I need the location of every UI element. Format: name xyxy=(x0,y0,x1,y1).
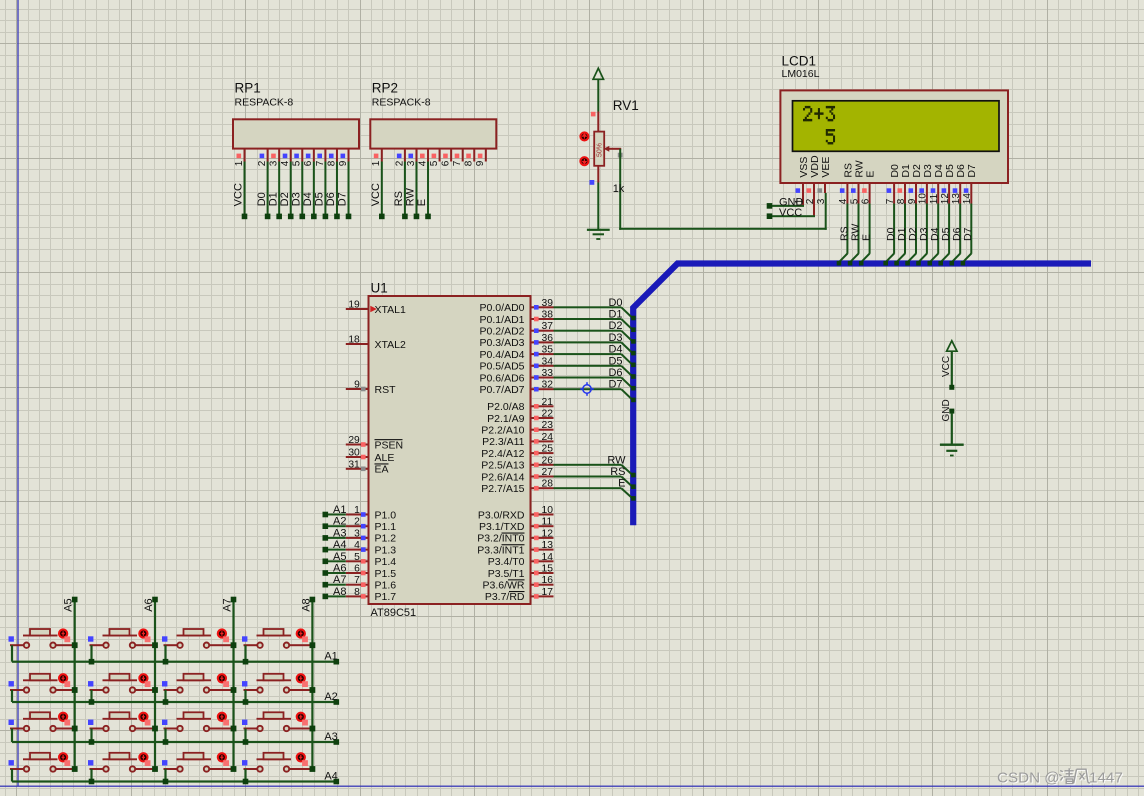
svg-text:RS: RS xyxy=(610,466,625,478)
svg-text:P3.4/T0: P3.4/T0 xyxy=(488,556,525,568)
svg-text:P3.1/TXD: P3.1/TXD xyxy=(479,521,525,533)
svg-text:1k: 1k xyxy=(613,183,625,195)
svg-text:35: 35 xyxy=(542,345,554,356)
svg-text:13: 13 xyxy=(542,540,554,551)
svg-text:RESPACK-8: RESPACK-8 xyxy=(372,96,431,108)
svg-text:P1.4: P1.4 xyxy=(375,556,397,568)
svg-text:7: 7 xyxy=(452,160,463,166)
svg-text:8: 8 xyxy=(326,160,337,166)
svg-text:D7: D7 xyxy=(962,227,974,241)
svg-text:33: 33 xyxy=(542,368,554,379)
svg-text:P3.3/INT1: P3.3/INT1 xyxy=(477,544,524,556)
svg-text:8: 8 xyxy=(464,160,475,166)
svg-text:17: 17 xyxy=(542,587,554,598)
svg-text:37: 37 xyxy=(542,321,554,332)
svg-text:D3: D3 xyxy=(918,227,930,241)
svg-text:23: 23 xyxy=(542,420,554,431)
svg-text:P2.4/A12: P2.4/A12 xyxy=(481,448,524,460)
svg-text:30: 30 xyxy=(348,448,360,459)
svg-text:A6: A6 xyxy=(143,598,155,611)
svg-text:1: 1 xyxy=(371,160,382,166)
svg-text:P2.2/A10: P2.2/A10 xyxy=(481,425,524,437)
svg-text:D7: D7 xyxy=(966,164,978,178)
svg-text:E: E xyxy=(861,234,873,241)
svg-text:P3.6/WR: P3.6/WR xyxy=(482,580,524,592)
svg-text:2: 2 xyxy=(354,517,360,528)
svg-text:28: 28 xyxy=(542,479,554,490)
svg-text:22: 22 xyxy=(542,409,554,420)
svg-text:E: E xyxy=(618,478,625,490)
svg-text:2: 2 xyxy=(394,160,405,166)
svg-text:VCC: VCC xyxy=(370,183,382,206)
svg-text:9: 9 xyxy=(338,160,349,166)
svg-text:9: 9 xyxy=(354,380,360,391)
svg-text:P2.7/A15: P2.7/A15 xyxy=(481,483,524,495)
svg-text:A7: A7 xyxy=(333,574,346,586)
svg-text:P3.5/T1: P3.5/T1 xyxy=(488,568,525,580)
svg-text:A4: A4 xyxy=(324,771,337,783)
svg-text:P0.7/AD7: P0.7/AD7 xyxy=(480,384,525,396)
svg-text:D0: D0 xyxy=(256,192,268,206)
svg-text:D3: D3 xyxy=(608,332,622,344)
svg-text:A2: A2 xyxy=(324,691,337,703)
svg-text:P2.6/A14: P2.6/A14 xyxy=(481,471,524,483)
svg-text:P0.0/AD0: P0.0/AD0 xyxy=(480,302,525,314)
svg-text:P1.3: P1.3 xyxy=(375,544,397,556)
svg-text:RS: RS xyxy=(393,191,405,206)
svg-text:1: 1 xyxy=(234,160,245,166)
svg-text:5: 5 xyxy=(354,552,360,563)
svg-text:A5: A5 xyxy=(63,598,75,611)
svg-text:P1.0: P1.0 xyxy=(375,509,397,521)
svg-text:P2.0/A8: P2.0/A8 xyxy=(487,401,525,413)
svg-text:6: 6 xyxy=(303,160,314,166)
svg-text:A2: A2 xyxy=(333,516,346,528)
svg-text:D7: D7 xyxy=(337,192,349,206)
svg-text:A3: A3 xyxy=(324,731,337,743)
svg-text:38: 38 xyxy=(542,310,554,321)
svg-text:LCD1: LCD1 xyxy=(782,54,817,69)
svg-text:5: 5 xyxy=(292,160,303,166)
svg-text:P2.5/A13: P2.5/A13 xyxy=(481,460,524,472)
svg-text:A6: A6 xyxy=(333,563,346,575)
svg-text:P1.2: P1.2 xyxy=(375,533,397,545)
svg-text:39: 39 xyxy=(542,298,554,309)
svg-text:1447: 1447 xyxy=(1089,770,1123,787)
svg-text:P1.1: P1.1 xyxy=(375,521,397,533)
svg-text:3: 3 xyxy=(354,528,360,539)
svg-text:P2.3/A11: P2.3/A11 xyxy=(482,436,525,448)
svg-text:26: 26 xyxy=(542,455,554,466)
svg-text:LM016L: LM016L xyxy=(782,68,820,80)
svg-text:A8: A8 xyxy=(333,586,346,598)
svg-text:3: 3 xyxy=(269,160,280,166)
svg-text:A5: A5 xyxy=(333,551,346,563)
svg-text:D4: D4 xyxy=(608,344,622,356)
svg-text:RW: RW xyxy=(405,188,417,207)
svg-text:VEE: VEE xyxy=(820,157,832,178)
svg-text:P0.6/AD6: P0.6/AD6 xyxy=(480,372,525,384)
svg-text:4: 4 xyxy=(280,160,291,166)
svg-text:P1.5: P1.5 xyxy=(375,568,397,580)
svg-text:P0.5/AD5: P0.5/AD5 xyxy=(480,361,525,373)
svg-text:2: 2 xyxy=(257,160,268,166)
svg-text:D5: D5 xyxy=(314,192,326,206)
svg-text:D3: D3 xyxy=(290,192,302,206)
svg-text:VCC: VCC xyxy=(941,356,952,377)
svg-text:D0: D0 xyxy=(608,297,622,309)
svg-text:32: 32 xyxy=(542,380,554,391)
svg-text:A7: A7 xyxy=(222,598,234,611)
svg-text:ALE: ALE xyxy=(375,452,395,464)
svg-text:D5: D5 xyxy=(608,355,622,367)
svg-text:6: 6 xyxy=(441,160,452,166)
svg-text:11: 11 xyxy=(542,517,553,528)
svg-text:AT89C51: AT89C51 xyxy=(371,607,417,619)
svg-text:P2.1/A9: P2.1/A9 xyxy=(487,413,525,425)
svg-text:PSEN: PSEN xyxy=(375,439,404,451)
svg-text:3: 3 xyxy=(406,160,417,166)
svg-text:U1: U1 xyxy=(371,281,388,296)
svg-text:D3: D3 xyxy=(922,164,934,178)
svg-text:50%: 50% xyxy=(597,143,604,157)
svg-text:7: 7 xyxy=(315,160,326,166)
svg-text:RV1: RV1 xyxy=(613,98,639,113)
svg-text:EA: EA xyxy=(375,464,389,476)
svg-text:P3.7/RD: P3.7/RD xyxy=(485,591,525,603)
svg-text:21: 21 xyxy=(542,397,554,408)
svg-text:4: 4 xyxy=(354,540,360,551)
svg-text:36: 36 xyxy=(542,333,554,344)
svg-text:9: 9 xyxy=(475,160,486,166)
svg-text:D2: D2 xyxy=(279,192,291,206)
svg-text:18: 18 xyxy=(348,335,360,346)
svg-text:1: 1 xyxy=(354,505,360,516)
svg-text:16: 16 xyxy=(542,575,554,586)
svg-text:D6: D6 xyxy=(608,367,622,379)
svg-text:P3.0/RXD: P3.0/RXD xyxy=(478,509,525,521)
svg-text:RESPACK-8: RESPACK-8 xyxy=(235,96,294,108)
svg-text:A3: A3 xyxy=(333,527,346,539)
svg-text:A1: A1 xyxy=(333,504,346,516)
svg-text:12: 12 xyxy=(542,528,554,539)
svg-text:27: 27 xyxy=(542,467,554,478)
svg-text:10: 10 xyxy=(542,505,554,516)
svg-text:RP2: RP2 xyxy=(372,81,398,96)
svg-text:E: E xyxy=(416,199,428,206)
svg-text:7: 7 xyxy=(354,575,360,586)
svg-text:A4: A4 xyxy=(333,539,346,551)
svg-text:29: 29 xyxy=(348,435,360,446)
svg-text:XTAL1: XTAL1 xyxy=(375,304,406,316)
svg-text:D1: D1 xyxy=(267,192,279,206)
svg-text:P0.1/AD1: P0.1/AD1 xyxy=(480,314,525,326)
svg-text:D2: D2 xyxy=(608,320,622,332)
svg-text:D1: D1 xyxy=(608,309,622,321)
svg-text:5: 5 xyxy=(429,160,440,166)
svg-text:8: 8 xyxy=(354,587,360,598)
svg-text:24: 24 xyxy=(542,432,554,443)
svg-text:3: 3 xyxy=(816,198,827,204)
svg-text:19: 19 xyxy=(348,300,360,311)
svg-text:31: 31 xyxy=(348,459,360,470)
svg-text:14: 14 xyxy=(542,552,554,563)
svg-text:P1.6: P1.6 xyxy=(375,580,397,592)
svg-text:RP1: RP1 xyxy=(235,81,261,96)
svg-text:E: E xyxy=(865,171,877,178)
svg-text:A1: A1 xyxy=(324,651,337,663)
svg-text:D7: D7 xyxy=(608,379,622,391)
svg-text:15: 15 xyxy=(542,564,554,575)
svg-text:GND: GND xyxy=(941,399,952,421)
svg-text:34: 34 xyxy=(542,356,554,367)
svg-text:P0.3/AD3: P0.3/AD3 xyxy=(480,337,525,349)
svg-text:XTAL2: XTAL2 xyxy=(375,339,406,351)
svg-text:RW: RW xyxy=(607,454,626,466)
svg-text:RST: RST xyxy=(375,384,397,396)
svg-text:CSDN @: CSDN @ xyxy=(997,770,1060,787)
svg-text:VCC: VCC xyxy=(233,183,245,206)
svg-text:P0.2/AD2: P0.2/AD2 xyxy=(480,326,525,338)
svg-text:P0.4/AD4: P0.4/AD4 xyxy=(480,349,525,361)
svg-text:D4: D4 xyxy=(302,192,314,206)
svg-text:4: 4 xyxy=(417,160,428,166)
svg-text:P3.2/INT0: P3.2/INT0 xyxy=(477,533,524,545)
svg-text:6: 6 xyxy=(354,564,360,575)
svg-text:P1.7: P1.7 xyxy=(375,591,397,603)
svg-text:D6: D6 xyxy=(325,192,337,206)
svg-text:VCC: VCC xyxy=(779,207,802,219)
svg-text:25: 25 xyxy=(542,444,554,455)
svg-text:A8: A8 xyxy=(300,598,312,611)
